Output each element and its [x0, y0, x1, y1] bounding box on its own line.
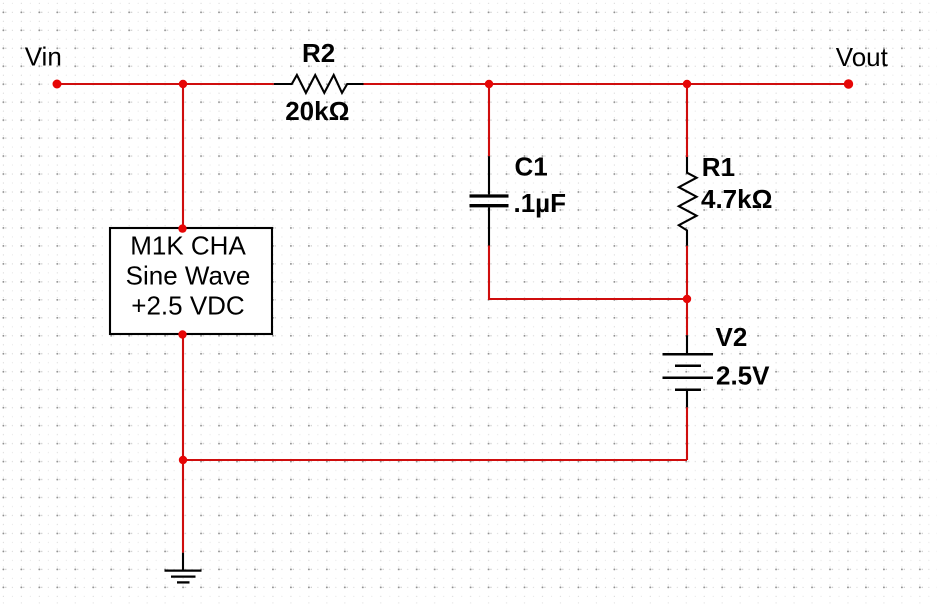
resistor R2	[274, 75, 364, 93]
svg-text:R2: R2	[302, 38, 335, 68]
svg-text:V2: V2	[716, 322, 748, 352]
node A junction	[179, 80, 187, 88]
wire node A down to source box	[182, 84, 184, 228]
svg-text:Vin: Vin	[25, 42, 62, 72]
node box-bottom junction	[178, 330, 186, 338]
wire C1 bottom to node B	[489, 246, 687, 300]
wire top node to R1	[686, 84, 688, 157]
svg-text:20kΩ: 20kΩ	[285, 96, 349, 126]
wire R2 right to Vout	[364, 83, 849, 85]
svg-text:4.7kΩ: 4.7kΩ	[701, 184, 772, 214]
svg-text:M1K CHA: M1K CHA	[130, 231, 246, 261]
svg-text:Vout: Vout	[836, 42, 889, 72]
wire source box bottom to ground	[182, 335, 184, 553]
svg-text:+2.5 VDC: +2.5 VDC	[131, 291, 244, 321]
svg-text:C1: C1	[515, 152, 548, 182]
ground	[165, 553, 202, 583]
node Vin terminal	[53, 80, 62, 89]
source box M1K CHA	[110, 228, 272, 334]
battery V2	[663, 335, 714, 407]
wire Vin to R2 left	[57, 83, 274, 85]
wire bottom rail	[183, 459, 687, 461]
svg-text:.1µF: .1µF	[514, 188, 567, 218]
svg-text:Sine Wave: Sine Wave	[126, 261, 251, 291]
svg-text:R1: R1	[702, 152, 735, 182]
node C1-top junction	[485, 80, 493, 88]
capacitor C1	[470, 156, 509, 245]
node box-top junction	[178, 224, 186, 232]
node B junction	[683, 295, 691, 303]
node R1-top junction	[683, 80, 691, 88]
resistor R1	[679, 157, 697, 246]
svg-text:2.5V: 2.5V	[716, 361, 770, 391]
wire V2 bottom to bottom rail	[686, 407, 688, 460]
source box text	[126, 231, 251, 321]
wire R1 bottom to node B	[686, 246, 688, 299]
wire top node to C1	[488, 84, 490, 156]
node bottom-rail junction	[179, 456, 187, 464]
wire node B to V2 top	[686, 299, 688, 335]
node Vout terminal	[844, 79, 853, 88]
